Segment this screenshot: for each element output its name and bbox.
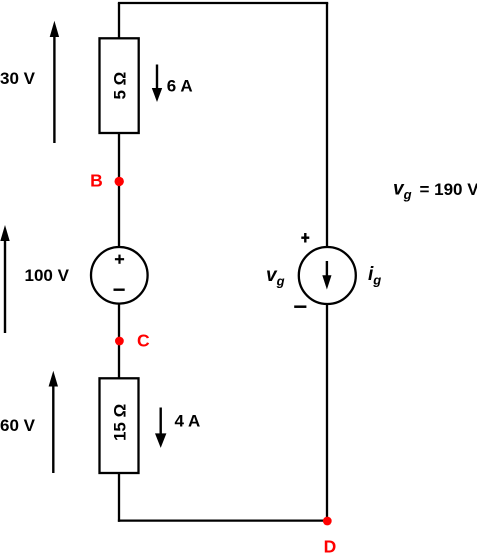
svg-text:15 Ω: 15 Ω	[110, 404, 129, 441]
annotation arrow for 60 V	[49, 371, 58, 473]
svg-text:= 190 V: = 190 V	[420, 180, 477, 199]
current source internal arrow	[322, 261, 331, 290]
current source plus sign	[301, 233, 309, 243]
svg-text:60 V: 60 V	[0, 416, 36, 435]
wire: between R1 and voltage source through node B	[118, 133, 120, 248]
resistor R1 5 ohm box	[100, 38, 139, 133]
wire: right vertical upper segment	[326, 3, 328, 248]
svg-text:4 A: 4 A	[175, 412, 201, 431]
wire: between voltage source and R2 through node C	[118, 304, 120, 379]
svg-text:6 A: 6 A	[167, 77, 193, 96]
annotation arrow for 100 V (far left)	[0, 225, 9, 333]
svg-text:100 V: 100 V	[25, 266, 70, 285]
wire: from R2 bottom to bottom rail	[118, 473, 120, 522]
svg-text:30 V: 30 V	[0, 69, 36, 88]
svg-text:vg: vg	[393, 179, 412, 203]
wire: bottom horizontal rail	[118, 519, 328, 521]
svg-text:5 Ω: 5 Ω	[110, 72, 129, 100]
resistor R2 15 ohm box	[100, 378, 139, 473]
node B dot	[115, 177, 124, 186]
voltage source minus sign	[114, 289, 125, 291]
voltage source V1 100 V circle	[91, 247, 148, 304]
svg-text:C: C	[137, 330, 150, 350]
svg-text:vg: vg	[266, 265, 285, 289]
node C dot	[115, 337, 124, 346]
svg-text:D: D	[324, 537, 337, 556]
voltage source plus sign	[115, 255, 124, 264]
svg-text:B: B	[90, 170, 103, 190]
svg-text:ig: ig	[368, 264, 381, 288]
annotation arrow for 30 V	[50, 21, 59, 143]
current arrow 6 A beside R1	[152, 65, 162, 103]
current source minus sign	[294, 305, 306, 308]
wire: top horizontal from node A area to right branch	[118, 2, 328, 4]
wire: right vertical lower segment	[326, 304, 328, 521]
wire: left vertical from top wire to resistor R1	[118, 3, 120, 39]
node D dot	[323, 517, 332, 526]
equation vg = 190 V	[393, 179, 477, 203]
current source Ig circle	[299, 247, 356, 304]
current arrow 4 A beside R2	[155, 408, 166, 448]
